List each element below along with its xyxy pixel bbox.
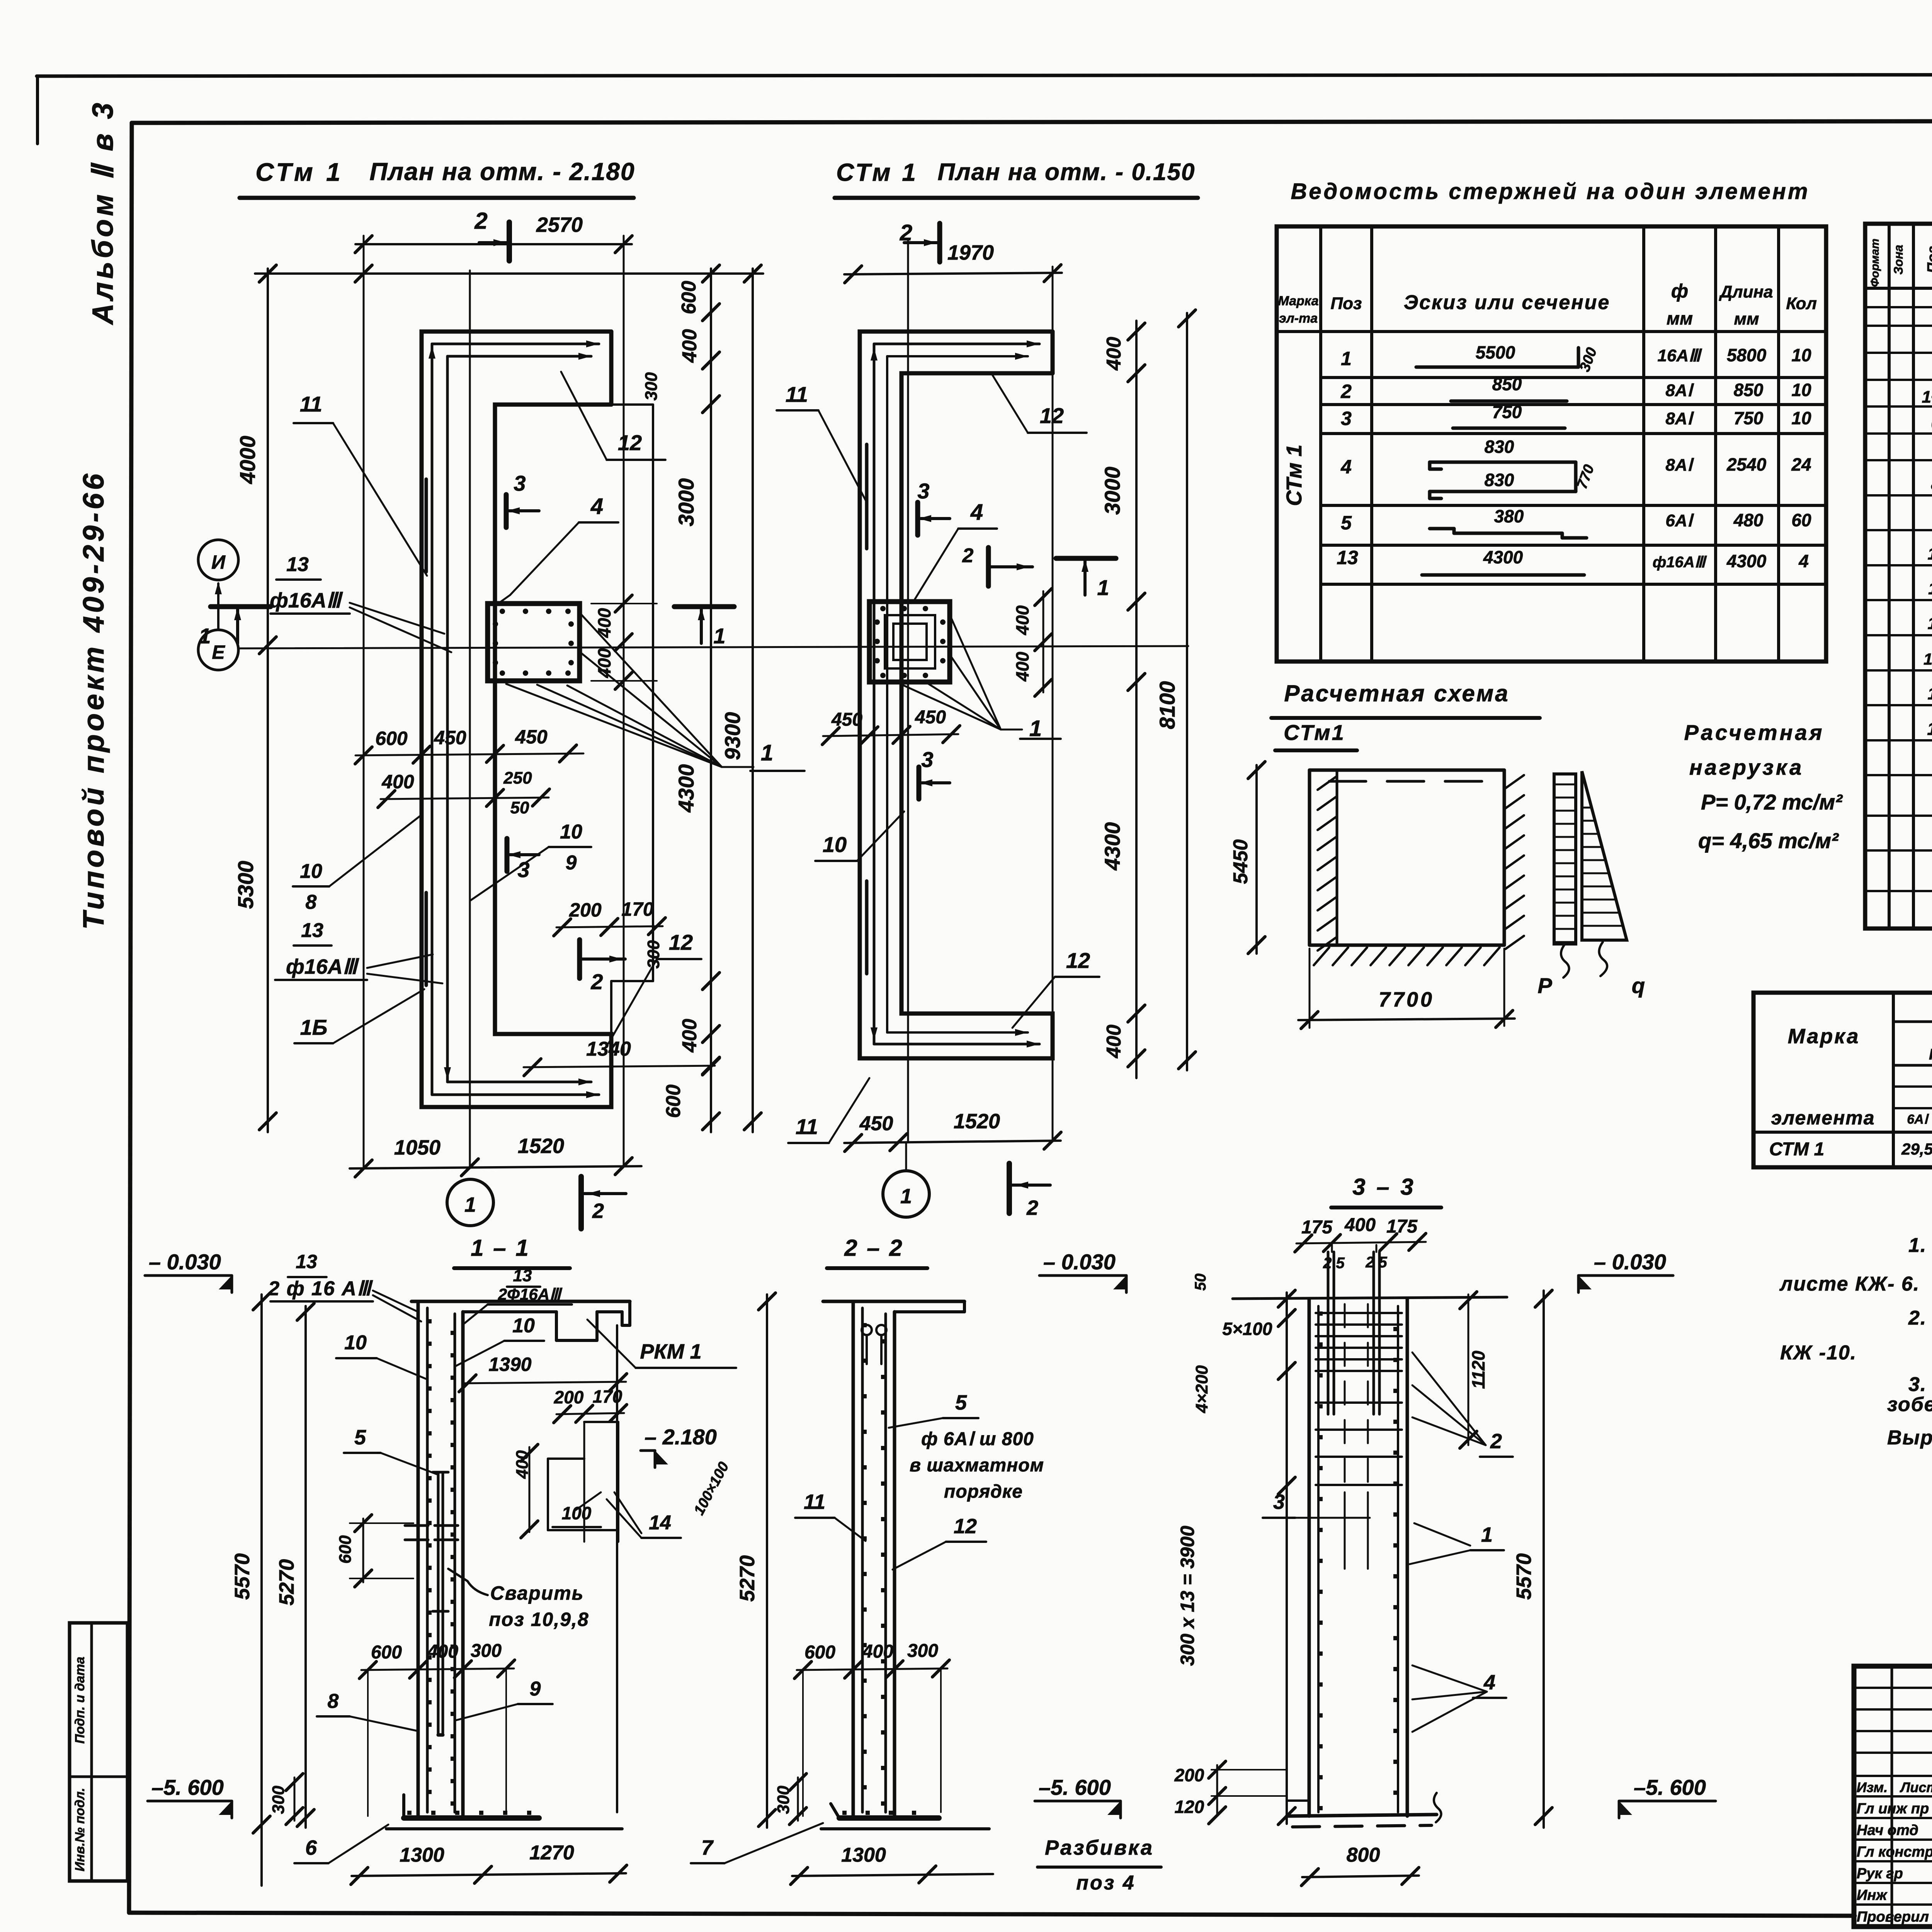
section 3-3 vertical dim 5570 [1543,1291,1545,1828]
plan1 section flag 1 right [674,604,734,609]
svg-text:1: 1 [464,1193,476,1216]
plan1 dim 2570 top [355,243,632,245]
svg-text:8АⅠ: 8АⅠ [1665,456,1694,474]
svg-text:400: 400 [381,771,414,793]
svg-text:P= 0,72 тс/м²: P= 0,72 тс/м² [1701,790,1843,814]
svg-text:1: 1 [1029,716,1042,741]
svg-text:q= 4,65 тс/м²: q= 4,65 тс/м² [1698,828,1839,853]
plan1 dim 1340 [524,1066,715,1067]
plan2 dims 400 400 at socket [1043,591,1044,692]
svg-text:10: 10 [300,860,322,883]
section 3-3 column outer lines [1308,1299,1311,1816]
svg-text:– 0.030: – 0.030 [1043,1250,1116,1274]
svg-text:4×200: 4×200 [1192,1365,1211,1413]
svg-text:поз 4: поз 4 [1076,1872,1135,1894]
svg-text:План на отм. - 2.180: План на отм. - 2.180 [369,158,635,185]
svg-text:400: 400 [862,1641,893,1662]
svg-text:ГОСТ 5781- 75: ГОСТ 5781- 75 [1929,1046,1932,1063]
svg-text:2: 2 [1490,1430,1502,1453]
svg-text:600: 600 [662,1085,685,1118]
svg-text:14: 14 [1927,719,1932,739]
svg-text:– 0.030: – 0.030 [149,1250,221,1274]
svg-text:Изм.: Изм. [1857,1779,1888,1795]
svg-text:13: 13 [1337,547,1358,568]
svg-text:5450: 5450 [1230,839,1252,884]
svg-text:Эскиз или сечение: Эскиз или сечение [1404,291,1611,314]
svg-text:600: 600 [371,1642,402,1663]
svg-text:–5. 600: –5. 600 [1634,1775,1706,1799]
plan2 leaders from socket to label 1 [900,684,1001,730]
plan2 construction vertical x2724 [1052,267,1054,1141]
svg-text:порядке: порядке [944,1481,1023,1502]
svg-text:И: И [211,551,226,573]
section 1-1 bottom dims 1300 1270 [352,1873,626,1876]
svg-text:ф 6АⅠ ш 800: ф 6АⅠ ш 800 [921,1429,1034,1449]
svg-text:2570: 2570 [536,213,583,236]
section 1-1 top slab [412,1300,630,1303]
svg-text:600: 600 [678,281,700,315]
svg-text:8АⅠ: 8АⅠ [1665,409,1694,428]
plan1 construction vertical x1614 full [623,236,625,1166]
title block left part verticals [1891,1666,1893,1927]
section 1-1 right region boundary line [616,1325,618,1812]
svg-text:11: 11 [796,1114,818,1139]
svg-text:12: 12 [954,1515,977,1538]
svg-text:Инж: Инж [1857,1887,1888,1903]
svg-text:250: 250 [503,769,532,787]
svg-text:Проверил: Проверил [1857,1909,1929,1925]
section 1-1 dim 1390 [463,1382,626,1383]
svg-text:5270: 5270 [736,1555,759,1602]
plan1 left dim line 4000/5300 [267,269,269,1132]
load diagram q triangle [1582,771,1627,940]
svg-text:Формат: Формат [1869,238,1881,287]
title block left part horizontals [1854,1687,1932,1689]
svg-text:СТм1: СТм1 [1284,720,1345,745]
svg-text:400: 400 [427,1641,458,1662]
svg-text:175: 175 [1386,1216,1418,1237]
svg-text:4: 4 [1798,551,1809,571]
svg-text:3: 3 [917,479,929,503]
svg-text:Ведомость стержней на один эле: Ведомость стержней на один элемент [1291,179,1810,204]
sheet outer top edge line [37,74,1932,76]
svg-text:Марка: Марка [1788,1025,1860,1048]
plan1 axis arrow between circles [217,583,219,630]
bottom-left stamp box [70,1623,128,1881]
vyborka vertical lines [1892,993,1895,1167]
svg-text:480: 480 [1733,510,1764,530]
vedomost header row line [1277,330,1826,333]
svg-text:10: 10 [344,1332,367,1354]
svg-text:50: 50 [1192,1274,1209,1291]
svg-text:4300: 4300 [674,764,698,813]
svg-text:Нач отд: Нач отд [1857,1822,1918,1838]
svg-text:13: 13 [296,1251,317,1272]
svg-text:400: 400 [1012,651,1032,682]
svg-text:200: 200 [569,899,602,921]
svg-text:2: 2 [592,1199,604,1223]
plan2 section flag 1 [1056,556,1116,561]
svg-text:750: 750 [1734,408,1764,428]
svg-text:24: 24 [1791,454,1811,474]
svg-text:1: 1 [1481,1523,1493,1546]
svg-text:12: 12 [1066,948,1090,973]
plan2 column socket box [869,602,950,682]
plan1 leader lines from column to label 1 [506,684,722,767]
svg-text:200: 200 [1174,1765,1204,1785]
plan1 axis circle Е [198,630,238,670]
plan1 construction vertical x941 [363,236,365,1168]
svg-text:600: 600 [336,1535,355,1564]
svg-text:ф16АⅢ: ф16АⅢ [1653,554,1707,571]
svg-text:1340: 1340 [586,1038,631,1060]
calc scheme dim 7700 [1298,1019,1515,1020]
svg-text:–5. 600: –5. 600 [1039,1775,1111,1799]
svg-text:300: 300 [642,372,661,401]
calc scheme dim 5450 [1255,765,1258,954]
svg-text:1970: 1970 [947,241,994,264]
svg-text:300 х 13 = 3900: 300 х 13 = 3900 [1177,1526,1198,1666]
svg-text:–5. 600: –5. 600 [151,1775,224,1799]
svg-text:12: 12 [1040,403,1064,428]
svg-text:3. В месте устройства: 3. В месте устройства стакана под желе- [1908,1373,1932,1396]
svg-text:5300: 5300 [233,861,258,909]
svg-text:5×100: 5×100 [1222,1319,1272,1339]
plan1 axis circle И [198,540,238,580]
svg-text:3000: 3000 [674,478,698,527]
svg-text:11: 11 [300,392,322,416]
svg-text:2: 2 [1026,1196,1038,1219]
svg-text:200: 200 [554,1387,584,1407]
svg-text:поз 10,9,8: поз 10,9,8 [489,1609,589,1630]
svg-text:1390: 1390 [488,1354,531,1375]
svg-text:8100: 8100 [1155,681,1179,730]
plan2 second rebar line [886,356,888,1032]
svg-text:7700: 7700 [1379,988,1434,1011]
svg-text:10: 10 [1791,408,1811,428]
svg-text:Рук гр: Рук гр [1857,1866,1903,1882]
svg-text:9300: 9300 [720,712,745,760]
section 1-1 wall rebar lines with dots [426,1308,429,1812]
plan1 bottom dim 1050 1520 [350,1166,641,1168]
outer top-left corner tick [36,76,39,144]
plan2 wall outline (C-shape, level -0.150) [860,332,1053,1058]
svg-text:13: 13 [1928,684,1932,703]
section 3-3 tie hoops 5x100 zone [1316,1312,1402,1314]
svg-text:11: 11 [804,1490,825,1514]
plan2 section flag 2 bottom [1007,1163,1012,1213]
plan1 section flag 1 left [211,604,270,609]
svg-text:4300: 4300 [1100,822,1124,871]
svg-text:1. Закладные изделия з: 1. Закладные изделия замаркированы на [1908,1234,1932,1257]
svg-text:Марка: Марка [1278,294,1319,308]
svg-text:2540: 2540 [1726,454,1767,474]
svg-text:Сварить: Сварить [490,1582,584,1604]
svg-text:12: 12 [1928,614,1932,633]
svg-text:Расчетная схема: Расчетная схема [1284,680,1509,706]
svg-text:2Ф16АⅢ: 2Ф16АⅢ [498,1285,563,1303]
drawing frame left line [129,123,132,1913]
svg-text:элемента: элемента [1771,1107,1875,1129]
svg-text:P: P [1537,973,1552,998]
plan1 dims 400 250 50 [381,798,549,799]
svg-text:ф: ф [1671,280,1688,302]
svg-text:4300: 4300 [1483,547,1523,567]
svg-text:400: 400 [1103,1025,1125,1059]
section 3-3 footing lines [1287,1815,1437,1816]
spec row lines [1865,306,1932,308]
svg-text:1520: 1520 [518,1134,564,1158]
vyborka horizontal lines [1893,1020,1932,1023]
svg-text:1 – 1: 1 – 1 [471,1235,530,1261]
svg-text:170: 170 [593,1386,622,1406]
svg-text:Кол: Кол [1786,294,1817,313]
svg-text:2: 2 [962,544,974,567]
svg-text:400: 400 [1344,1215,1376,1235]
svg-text:q: q [1632,973,1645,998]
calc scheme ground hatching bottom [1314,947,1329,965]
svg-text:1: 1 [1341,348,1352,369]
svg-text:10: 10 [512,1315,535,1337]
spec header line [1865,287,1932,290]
svg-text:400: 400 [1103,337,1125,371]
svg-text:1050: 1050 [394,1136,440,1159]
svg-text:2. Перекрытие РКИ 1 с: 2. Перекрытие РКИ 1 смотрите на листе [1908,1307,1932,1329]
svg-text:13: 13 [513,1266,532,1285]
svg-text:зобетонную колонну. Армат: зобетонную колонну. Арматуру сетки поз 1… [1887,1393,1932,1416]
svg-text:120: 120 [1175,1797,1204,1817]
svg-text:Расчетная: Расчетная [1684,720,1824,745]
svg-text:8: 8 [328,1690,339,1713]
svg-text:13: 13 [286,553,309,576]
load diagram P strip [1554,774,1576,944]
svg-text:11: 11 [1928,579,1932,598]
svg-text:Типовой проект 409-29-66: Типовой проект 409-29-66 [77,471,110,930]
svg-text:Поз: Поз [1331,294,1362,313]
plan2 axis circle 1 bottom [883,1171,929,1217]
svg-text:8АⅠ: 8АⅠ [1665,381,1694,400]
svg-text:100: 100 [1923,650,1932,668]
svg-text:9: 9 [566,852,577,874]
calc scheme square [1310,769,1504,772]
svg-text:100: 100 [562,1503,592,1523]
svg-text:Зона: Зона [1891,245,1905,274]
svg-text:1120: 1120 [1468,1350,1488,1389]
svg-text:14: 14 [649,1512,671,1534]
plan1 wall rebar line inner face [446,356,449,1082]
svg-text:400: 400 [679,329,701,363]
svg-text:5500: 5500 [1476,342,1515,362]
svg-text:СТм 1: СТм 1 [836,158,918,186]
section 3-3 left dim chain [1286,1293,1288,1824]
title block outer frame [1854,1666,1932,1927]
svg-text:Длина: Длина [1718,282,1773,301]
svg-text:Альбом Ⅱ в 3: Альбом Ⅱ в 3 [87,100,119,325]
plan1 wall outline (C-shape, level -2.180) [422,332,611,1107]
svg-text:60: 60 [1791,510,1811,530]
svg-text:СТм 1: СТм 1 [1282,444,1306,506]
plan1 overall top dim line y708 [255,272,763,275]
svg-text:2: 2 [1340,381,1352,402]
svg-text:800: 800 [1347,1844,1380,1866]
svg-text:6: 6 [305,1836,317,1859]
svg-text:2 ф 16 АⅢ: 2 ф 16 АⅢ [268,1277,373,1300]
plan1 wall rebar line outer face [431,344,434,1095]
svg-text:1: 1 [713,624,725,648]
svg-text:РКМ 1: РКМ 1 [640,1340,701,1363]
svg-text:5: 5 [1341,512,1352,534]
section 2-2 top slab [823,1300,964,1303]
svg-text:10: 10 [560,821,582,843]
svg-text:380: 380 [1494,506,1524,526]
section 3-3 column rebar lines [1317,1306,1320,1812]
svg-text:300: 300 [471,1641,502,1661]
plan2 bottom dim 450 1520 [844,1141,1061,1143]
plan1 section flag 2 mid [577,940,582,978]
svg-text:450: 450 [859,1112,893,1135]
plan1 overall right dim line 9300 [752,269,754,1132]
svg-text:170: 170 [621,898,654,920]
svg-text:9: 9 [530,1678,541,1700]
svg-text:ф16АⅢ: ф16АⅢ [286,955,359,978]
svg-text:Лист: Лист [1900,1779,1932,1795]
svg-text:3: 3 [514,471,526,495]
plan2 short rebar verticals [865,444,869,549]
svg-text:4300: 4300 [1726,551,1767,571]
section 2-2 footing [839,1815,939,1821]
svg-text:2 – 2: 2 – 2 [844,1235,903,1261]
calc scheme hatching right side [1505,775,1524,788]
plan2 right dim line 400/3000/4300 [1135,321,1138,1078]
svg-text:Вырезать по месту и: Вырезать по месту и отогнуть. [1887,1427,1932,1449]
section 1-1 ledge dashes [405,1524,428,1527]
svg-text:450: 450 [831,709,862,730]
plan1 dims 200 170 [556,926,663,927]
plan1 section flag 2 bottom [578,1177,584,1229]
svg-text:4000: 4000 [235,436,260,485]
plan1 right dim line 600/400/3000/4300 ... [710,269,712,1132]
svg-text:3: 3 [921,747,933,772]
vedomost table frame [1277,226,1826,662]
svg-text:12: 12 [618,430,642,455]
section 2-2 vertical dim 5270 [766,1294,768,1828]
calc scheme inner left wall line [1336,770,1338,945]
section 2-2 wall rebar lines with dots [861,1308,864,1812]
svg-text:СТМ 1: СТМ 1 [1769,1139,1825,1160]
svg-text:– 2.180: – 2.180 [645,1425,717,1449]
section 2-2 bar cut circles at top [862,1325,872,1335]
svg-text:5: 5 [354,1426,366,1449]
svg-text:450: 450 [915,707,946,728]
svg-text:10: 10 [823,832,847,857]
plan1 inner step lines at opening [611,403,653,406]
svg-text:16АⅢ: 16АⅢ [1657,346,1702,365]
svg-text:2 5: 2 5 [1365,1254,1387,1271]
section 3-3 inner dashed bars [1344,1304,1346,1492]
svg-text:400: 400 [679,1019,701,1053]
plan2 dim 1970 top [844,273,1062,274]
section 3-3 bottom dim 800 [1302,1876,1419,1877]
svg-text:3: 3 [1273,1490,1285,1514]
svg-text:Инв.№ подл.: Инв.№ подл. [73,1788,87,1872]
plan1 axis Е horizontal line [238,646,1188,648]
svg-text:СТм 1: СТм 1 [255,158,344,186]
svg-text:5570: 5570 [1512,1553,1536,1600]
svg-text:1300: 1300 [400,1844,444,1866]
svg-text:мм: мм [1667,308,1693,328]
svg-text:2: 2 [474,208,487,234]
plan2 dims 450 450 [823,734,958,736]
section 1-1 detail -2.180 ledge [556,1413,624,1414]
svg-text:4: 4 [590,494,603,519]
svg-text:50: 50 [510,798,529,817]
svg-text:100×100: 100×100 [691,1459,732,1518]
svg-text:Подп. и дата: Подп. и дата [73,1656,87,1743]
svg-text:нагрузка: нагрузка [1689,755,1804,779]
svg-text:11: 11 [786,382,808,406]
plan2 section flag 2 mid [986,548,991,586]
svg-text:1: 1 [199,624,211,648]
svg-text:3 – 3: 3 – 3 [1352,1174,1415,1200]
svg-text:2: 2 [590,969,603,994]
svg-text:6АⅠ: 6АⅠ [1907,1112,1929,1127]
svg-text:750: 750 [1492,402,1522,422]
section 1-1 footing [404,1815,539,1821]
plan1 extra rebar short verticals [425,479,428,572]
section 3-3 tie hoops 4x200 zone [1316,1401,1402,1404]
svg-text:400: 400 [594,608,614,638]
svg-text:10: 10 [1791,345,1811,365]
section 1-1 middle welded bars poz 5 [437,1472,440,1735]
svg-text:3: 3 [1341,408,1352,429]
svg-text:1: 1 [761,740,773,765]
svg-text:1520: 1520 [954,1110,1000,1133]
svg-text:850: 850 [1734,380,1764,400]
svg-text:13: 13 [301,919,323,942]
svg-text:450: 450 [515,726,548,748]
spec table frame [1865,224,1932,929]
svg-text:5570: 5570 [231,1553,254,1600]
svg-text:Разбивка: Разбивка [1045,1836,1154,1859]
svg-text:12: 12 [669,930,693,954]
vedomost row lines [1321,376,1826,379]
plan1 dims 400 400 at column right [623,593,625,692]
section 3-3 dim 1120 [1468,1294,1469,1445]
svg-text:175: 175 [1301,1217,1333,1238]
svg-text:830: 830 [1485,470,1514,490]
svg-text:600: 600 [375,728,408,749]
svg-text:300: 300 [907,1641,938,1661]
svg-text:1: 1 [900,1185,912,1208]
plan2 overall dim 8100 [1186,313,1188,1070]
section 3-3 dowel bars sticking up [1327,1252,1330,1414]
svg-text:Гл инж пр: Гл инж пр [1857,1801,1929,1817]
svg-text:3000: 3000 [1100,467,1124,515]
svg-text:1Б: 1Б [300,1015,328,1039]
svg-text:400: 400 [1012,605,1032,635]
svg-text:4: 4 [970,500,983,525]
svg-text:4: 4 [1340,456,1352,478]
svg-text:450: 450 [434,727,466,748]
section 2-2 bottom dim 1300 [792,1874,993,1876]
plan2 wall rebar line with hooks [873,344,876,1044]
section 1-1 wall outer lines [417,1301,420,1816]
svg-text:1300: 1300 [841,1844,886,1866]
plan1 dims 600 450 450 [355,753,583,755]
svg-text:КЖ -10.: КЖ -10. [1780,1342,1857,1364]
svg-text:830: 830 [1485,437,1514,457]
svg-text:1÷5: 1÷5 [1922,388,1932,406]
